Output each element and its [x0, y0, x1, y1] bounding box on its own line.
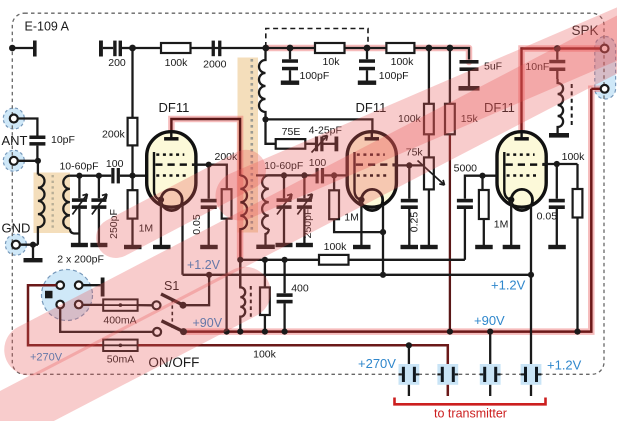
SPK terminal bottom: [601, 85, 609, 93]
ground bar 100pF second: [358, 81, 376, 85]
tube DF11 third: [497, 132, 546, 211]
node S1 to +1.2V: [206, 272, 212, 278]
node tube2 exit: [406, 162, 412, 168]
wire 5uF lower stem: [468, 71, 470, 86]
blue highlight ANT terminal 2: [3, 150, 24, 171]
antenna coil core dashes: [52, 175, 54, 230]
wire fuse to S1: [138, 304, 153, 306]
wire ANT1 to 10pF: [18, 119, 38, 136]
pink glow along +90V rail: [185, 89, 600, 332]
speaker coupling coil: [558, 79, 564, 133]
node top bus 100k col: [426, 45, 433, 52]
resistor 100k filter: [319, 255, 349, 265]
wire secondary bottom to ground column: [70, 229, 80, 234]
wire tube3 grid node: [465, 176, 497, 199]
node rail filter cap: [282, 329, 288, 335]
svg-text:GND: GND: [2, 221, 31, 236]
resistor 400: [260, 287, 270, 315]
capacitor 0.05 first: [208, 165, 210, 245]
filter choke coil: [240, 260, 245, 332]
tan highlight antenna transformer: [34, 173, 71, 234]
ground bar tube1 filament: [153, 245, 171, 249]
node tube1 exit: [206, 162, 212, 168]
node GND junction: [30, 242, 36, 248]
ANT terminal 1: [10, 115, 18, 123]
connector key square: [45, 291, 53, 299]
wire grid node to 1M third: [483, 176, 484, 245]
resistor 75E: [276, 139, 306, 149]
capacitor 100 input: [111, 168, 120, 183]
capacitor 5uF electrolytic: [460, 60, 479, 71]
wire tube3 filament right to +1.2V end: [530, 205, 532, 275]
stub plate terminal at border: [33, 41, 37, 57]
resistor 1M third: [479, 190, 489, 219]
svg-text:+1.2V: +1.2V: [491, 278, 526, 293]
resistor 10k: [315, 43, 345, 53]
ground bar speaker coil: [549, 133, 569, 138]
wire 400 column: [264, 260, 266, 332]
svg-text:100k: 100k: [165, 57, 189, 69]
tube DF11 second: [347, 132, 396, 211]
svg-text:100k: 100k: [324, 241, 348, 253]
node trimmer1: [76, 173, 82, 179]
ground bar trimmer3: [276, 243, 293, 247]
svg-text:400: 400: [291, 283, 309, 295]
switch mechanical link dashes: [171, 299, 173, 328]
IF transformer top coil: [259, 48, 265, 119]
ANT terminal 2: [10, 157, 18, 165]
blue highlight SPK terminals: [595, 37, 616, 100]
wire 15k col from bus: [449, 48, 451, 104]
switch S1 lower blade: [162, 321, 184, 332]
wire cap 200 to junction: [122, 47, 133, 49]
svg-text:2000: 2000: [203, 59, 227, 71]
wire 1M to ground: [131, 219, 133, 245]
resistor 1M second: [329, 190, 339, 219]
ground bar trimmer1: [71, 243, 88, 247]
node rail 400: [262, 329, 268, 335]
wire secondary bottom to ground: [266, 229, 269, 245]
wire 1M second return to filament: [334, 219, 383, 232]
wire 100pF-2 stem: [366, 48, 368, 81]
ground bar trimmer2: [90, 243, 107, 247]
wire grid feed to tube2 top: [266, 119, 373, 137]
ground bar 1M first: [124, 245, 142, 249]
wire cap100 to grid node: [120, 175, 147, 177]
ground bar IF secondary: [256, 245, 275, 249]
ground bar tube3 filament: [503, 245, 521, 249]
node tube2 filament rail: [380, 272, 386, 278]
trimmer capacitor 4-25pF: [315, 137, 324, 152]
node battery1 tap: [406, 342, 412, 348]
battery 90V: [480, 364, 501, 385]
svg-text:2 x 200pF: 2 x 200pF: [57, 253, 104, 265]
resistor 100k output: [573, 189, 583, 218]
battery 1.2V: [521, 364, 542, 385]
wire tube1 plate path red: [171, 119, 240, 176]
ground bar 0.05 third: [548, 245, 566, 249]
wire 100k output top: [576, 164, 578, 189]
node filter-cap: [282, 257, 288, 263]
svg-text:100pF: 100pF: [379, 70, 409, 82]
ground bar 0.25: [401, 245, 419, 249]
svg-text:0.25: 0.25: [409, 212, 421, 233]
wire 75E to trimmer 4-25pF: [305, 143, 315, 145]
wire SPK bottom terminal: [591, 88, 600, 90]
fuse 50mA: [103, 340, 137, 351]
wire battery1 column: [408, 345, 410, 396]
svg-text:200: 200: [108, 57, 126, 69]
svg-text:ANT: ANT: [2, 133, 28, 148]
resistor 15k vertical: [445, 104, 455, 135]
node trimmer3: [281, 172, 287, 178]
wire 100k vert to 75k: [428, 134, 430, 157]
blue highlight power connector: [42, 270, 93, 321]
wire tube3 anode exit: [543, 163, 578, 165]
svg-text:10k: 10k: [323, 56, 341, 68]
wire +1.2V rail: [183, 274, 532, 276]
wire secondary top to grid line: [70, 175, 80, 177]
wire 100k col from bus: [428, 48, 430, 104]
blue highlight GND terminal: [5, 234, 26, 255]
ground bar 100pF first: [281, 81, 299, 85]
blue highlight ANT terminal 1: [3, 108, 24, 129]
tube DF11 first: [147, 132, 196, 211]
wire GND to coil node: [20, 244, 38, 246]
svg-text:10pF: 10pF: [51, 134, 75, 146]
node tube1 grid: [129, 173, 135, 179]
filter choke core dashes: [250, 286, 252, 317]
capacitor 10pF: [29, 136, 45, 146]
resistor 100k top1: [161, 43, 191, 53]
red band stroke 4: [116, 170, 246, 238]
wire +270V from top-left pin: [28, 285, 103, 345]
wire stub gap to cap 200: [103, 47, 113, 49]
capacitor 0.05 third: [556, 164, 558, 245]
node rail 15k: [447, 329, 453, 335]
node border feed: [9, 45, 16, 52]
wire grid line tube2: [256, 174, 316, 176]
wire battery4 column: [530, 275, 532, 396]
node tube2 grid: [331, 172, 337, 178]
node trimmer4: [301, 172, 307, 178]
wire top bus: [133, 47, 448, 49]
switch S1 lower contact: [153, 328, 161, 336]
node rail 200k: [224, 329, 230, 335]
battery 270V: [399, 364, 420, 385]
wire bus to 5uF: [448, 48, 469, 60]
red band stroke 1: [240, 22, 617, 196]
wire border dot to stub: [12, 47, 33, 49]
trimmer capacitor 2: [98, 176, 100, 243]
svg-text:100k: 100k: [562, 151, 586, 163]
trimmer capacitor 1: [78, 176, 80, 243]
node top bus 100pF2: [364, 45, 371, 52]
wire grid line tube1: [79, 175, 111, 177]
node speaker 10nF: [554, 45, 561, 52]
IF transformer core dashes: [251, 59, 254, 231]
node rail 100k output: [574, 329, 580, 335]
trimmer capacitor 4: [303, 175, 305, 243]
svg-text:DF11: DF11: [159, 100, 190, 115]
resistor 200k second: [222, 189, 232, 218]
wire 10pF to ANT2 node: [36, 146, 38, 161]
tan highlight IF transformer: [238, 58, 259, 233]
node ANT junction: [35, 158, 41, 164]
svg-text:5000: 5000: [454, 163, 478, 175]
wire S1 to +1.2V rail: [183, 275, 209, 305]
wire tube2 anode exit: [393, 164, 425, 166]
node trimmer2: [96, 173, 102, 179]
wire secondary top to grid line: [269, 174, 284, 176]
GND terminal: [12, 241, 20, 249]
svg-text:+1.2V: +1.2V: [547, 357, 582, 372]
resistor 1M first: [128, 190, 138, 218]
wire +90V rail: [184, 89, 592, 332]
node 1M return: [380, 229, 386, 235]
node filter-choke: [237, 257, 243, 263]
wire 75k bottom to ground: [428, 190, 430, 246]
wire coil1 bottom to 75E node: [266, 119, 276, 143]
svg-text:100: 100: [106, 158, 124, 170]
wire IF transformer primary bottom to rails: [239, 228, 241, 288]
ground bar 75k: [420, 245, 438, 249]
filter capacitor: [283, 260, 285, 332]
wire 100pF-1 stem: [289, 48, 291, 81]
wire GND node to ground bar: [32, 245, 34, 258]
wire 200k column top: [131, 48, 133, 118]
stub plate terminal before cap 200: [99, 41, 103, 57]
wire 5000 bottom to filter line: [464, 209, 466, 260]
dashed shield box: [266, 29, 368, 48]
SPK terminal top: [601, 45, 609, 53]
IF transformer lower right coil: [262, 175, 269, 229]
svg-text:+270V: +270V: [358, 356, 396, 371]
IF transformer lower left coil: [240, 176, 247, 230]
resistor 200k vertical: [128, 118, 138, 146]
wire bottom-right pin to fuse: [83, 304, 104, 306]
resistor 75k variable: [424, 157, 434, 189]
red band stroke 2: [30, 38, 617, 350]
wire tube2 grid node to 1M: [333, 175, 335, 190]
node filter-400: [262, 257, 268, 263]
wire bottom-left pin to switch2: [60, 308, 153, 332]
wire 15k bottom to +90V rail: [449, 134, 451, 331]
wire +270V line to battery2: [138, 345, 448, 396]
wire speaker line red: [522, 49, 601, 138]
svg-text:100k: 100k: [391, 56, 415, 68]
capacitor 100pF first: [282, 59, 298, 70]
svg-text:0.05: 0.05: [537, 210, 558, 222]
svg-text:100k: 100k: [253, 349, 277, 361]
wire 100k output to +90V rail: [576, 218, 578, 332]
wire tube3 filament left to ground: [510, 201, 512, 245]
wire filter node line: [240, 259, 465, 261]
node top bus 15k col: [447, 45, 454, 52]
node top bus left: [129, 45, 136, 52]
stub plate after 4-25pF: [335, 137, 339, 152]
wire cap100-2 to tube2 grid: [324, 174, 347, 176]
ground bar trimmer4: [296, 243, 313, 247]
wire tube1 filament left to ground: [160, 201, 162, 245]
capacitor 100 second: [316, 168, 325, 183]
speaker coil core dashes: [571, 84, 573, 126]
trimmer capacitor 3: [283, 175, 285, 243]
switch S1 upper contact: [153, 301, 161, 309]
svg-text:75E: 75E: [282, 126, 301, 138]
resistor 100k vertical: [424, 104, 434, 135]
node coil1 bottom: [262, 116, 268, 122]
capacitor 200: [113, 41, 122, 57]
ground bar 5uF: [459, 86, 480, 91]
resistor 100k top2: [386, 43, 414, 53]
wire grid node to 1M: [131, 176, 133, 191]
svg-text:1M: 1M: [494, 219, 509, 231]
wire trimmer to stub: [324, 143, 335, 145]
wire top-right pin to stub: [83, 284, 101, 286]
red band stroke 3: [10, 293, 245, 415]
pink glow along speaker wire: [522, 49, 605, 138]
svg-text:+90V: +90V: [474, 313, 505, 328]
wire tube1 anode exit: [192, 165, 227, 190]
node top bus 100pF1: [287, 45, 294, 52]
capacitor 5000: [457, 199, 473, 209]
bracket to transmitter: [395, 398, 546, 405]
capacitor 0.25: [408, 165, 410, 245]
node rail battery3: [487, 329, 493, 335]
wire 200k second to +90V rail: [225, 219, 227, 332]
switch S1 upper blade: [161, 294, 183, 305]
svg-text:E-109 A: E-109 A: [25, 20, 70, 34]
wire tube2 filament right to +1.2V rail: [382, 205, 384, 275]
fuse 400mA: [103, 299, 137, 310]
ground bar tube2 filament: [353, 245, 371, 249]
capacitor 2000: [212, 41, 222, 57]
antenna transformer primary coil: [38, 175, 45, 245]
node rail choke: [237, 329, 243, 335]
node tube3 exit: [554, 161, 560, 167]
power connector pins: [56, 281, 64, 289]
pink glow along tube1 plate path: [171, 119, 240, 258]
wire node to antenna coil: [37, 161, 39, 175]
wire tube2 filament left to ground: [360, 201, 362, 245]
svg-text:200k: 200k: [102, 129, 126, 141]
pink glow along top supply bus: [171, 48, 604, 332]
capacitor 100pF second: [359, 59, 375, 70]
ground bar 1M third: [475, 245, 493, 249]
node top bus IF: [262, 45, 269, 52]
wire battery3 column: [489, 332, 491, 396]
ground bar 0.05 first: [200, 245, 218, 249]
capacitor 10nF: [556, 49, 558, 80]
wire ANT2 to coil: [18, 160, 38, 162]
wire 200k to grid dot: [131, 145, 133, 175]
svg-text:to transmitter: to transmitter: [434, 407, 507, 421]
stub plate connector: [101, 278, 105, 297]
svg-text:10-60pF: 10-60pF: [59, 161, 98, 173]
ground bar GND: [24, 258, 43, 262]
battery 270V tap: [437, 364, 458, 385]
node tube3 filament rail: [528, 272, 534, 278]
svg-text:100pF: 100pF: [300, 70, 330, 82]
wire tube1 filament right to +1.2V rail: [181, 205, 183, 275]
node tube3 grid: [479, 173, 485, 179]
antenna transformer secondary coil: [63, 176, 70, 229]
